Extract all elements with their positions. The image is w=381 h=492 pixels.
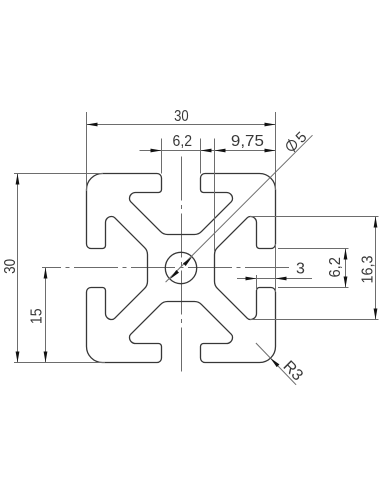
arrow right	[265, 123, 276, 127]
dimension line 6,2	[140, 150, 215, 152]
arrow bottom	[44, 352, 48, 363]
leader line R3	[256, 343, 296, 385]
arrow bottom	[344, 277, 348, 288]
center hole circle D5	[165, 252, 196, 283]
arrow top	[344, 249, 348, 260]
extension line slot right wall	[200, 139, 202, 174]
extension line lip underside plane	[256, 275, 258, 290]
arrow right outside	[201, 149, 212, 153]
extension line slot upper wall	[278, 248, 349, 250]
svg-text:6,2: 6,2	[173, 133, 193, 150]
extension line bottom edge	[14, 362, 105, 364]
leader and label D5 center hole	[166, 129, 313, 282]
leader line diameter dimension	[166, 135, 313, 282]
arrow right outside	[276, 277, 287, 281]
dimension 6,2 top slot opening	[140, 133, 215, 174]
dimension line 6,2 right	[345, 249, 347, 288]
extension line cavity bottom plane	[214, 139, 216, 253]
extension line face plane across opening	[275, 244, 277, 292]
svg-text:6,2: 6,2	[327, 257, 344, 278]
profile outline 30x30 extrusion cross-section	[87, 174, 276, 363]
arrow left	[215, 149, 226, 153]
dimension line 9,75	[215, 150, 276, 152]
arrow top	[16, 174, 20, 185]
arrow left outside	[246, 277, 257, 281]
svg-text:9,75: 9,75	[231, 133, 264, 150]
diameter symbol slash	[289, 139, 295, 152]
arrow bottom	[16, 352, 20, 363]
arrow lower left on hole	[170, 270, 179, 279]
svg-text:16,3: 16,3	[359, 255, 376, 283]
extension line top edge	[14, 173, 103, 175]
extension line right edge	[275, 112, 277, 190]
dimension 30 left	[2, 174, 105, 363]
svg-text:30: 30	[2, 259, 19, 274]
arrow on corner arc	[270, 358, 279, 367]
dimension line 30 left	[17, 174, 19, 363]
centerline horizontal	[42, 267, 289, 269]
extension line slot left wall	[161, 139, 163, 174]
extension line left edge	[86, 112, 88, 191]
diameter symbol circle	[287, 141, 297, 151]
arrow bottom	[374, 309, 378, 320]
centerline vertical	[181, 157, 183, 373]
dimension 30 top	[87, 108, 276, 191]
svg-text:15: 15	[28, 308, 45, 324]
dimension line 15	[45, 268, 47, 363]
dimension 3 lip depth	[237, 244, 312, 292]
leader and label R3 corner radius	[256, 343, 306, 385]
arrow left outside	[151, 149, 162, 153]
arrow right	[265, 149, 276, 153]
arrow top	[374, 217, 378, 228]
arrow left	[87, 123, 98, 127]
dimension 6,2 right slot opening	[278, 249, 349, 288]
svg-text:3: 3	[296, 261, 305, 278]
dimension 9,75 slot cavity depth	[215, 133, 276, 252]
dimension line 3	[237, 278, 312, 280]
dimension line 30 top	[87, 124, 276, 126]
dimension line 16,3	[375, 217, 377, 320]
extension line slot lower wall	[278, 287, 349, 289]
extension line cavity upper edge	[250, 216, 379, 218]
extension line cavity lower edge	[250, 319, 379, 321]
svg-text:30: 30	[174, 108, 189, 125]
dimension 15 center height	[28, 268, 47, 363]
arrow top at centerline	[44, 268, 48, 279]
arrow upper right on hole	[183, 257, 192, 266]
dimension 16,3 cavity width	[250, 217, 379, 320]
